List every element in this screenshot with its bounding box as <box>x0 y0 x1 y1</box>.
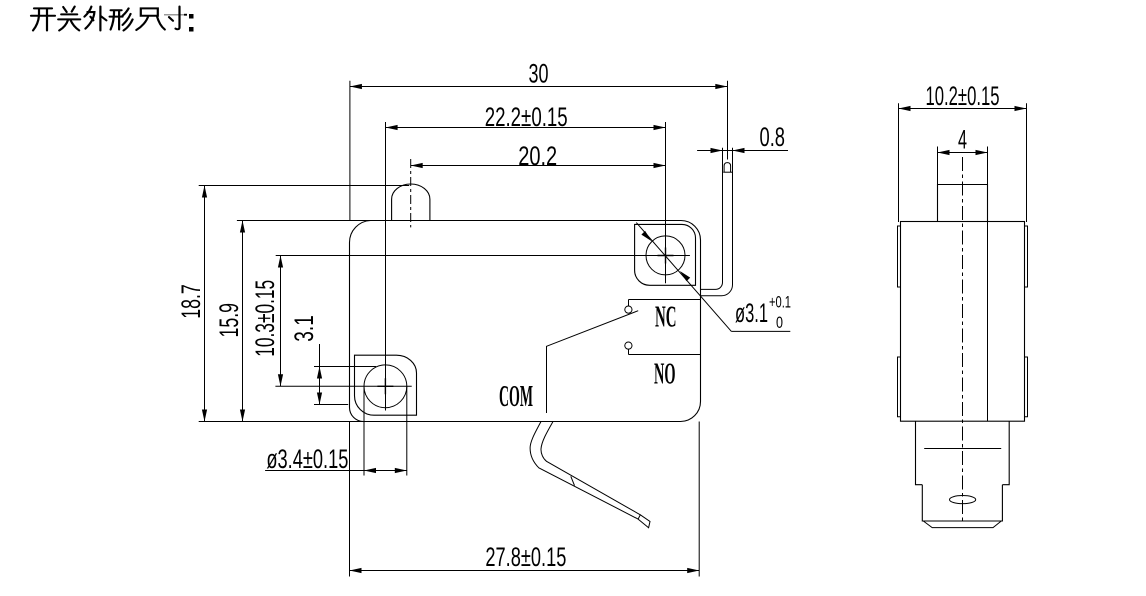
dimension 22.2 text <box>485 102 568 132</box>
bottom-left hole vertical centerline / 22.2 left extension <box>385 122 387 411</box>
end view terminal block lower <box>922 485 1002 528</box>
title 开关外形尺寸: <box>31 7 194 32</box>
svg-text:10.3±0.15: 10.3±0.15 <box>250 280 280 357</box>
svg-text:ø3.4±0.15: ø3.4±0.15 <box>266 444 348 474</box>
dimension 3.1 line <box>314 344 376 405</box>
dimension 10.3 line <box>278 256 283 387</box>
end view right ribs <box>1025 226 1028 417</box>
dimension 0.8 line <box>697 148 788 153</box>
svg-text:18.7: 18.7 <box>176 284 206 319</box>
COM label <box>499 378 533 413</box>
dimension 4 text <box>958 125 967 155</box>
NC terminal blade <box>700 148 732 296</box>
switch body outline <box>350 221 701 422</box>
dimension 20.2 text <box>518 141 557 171</box>
dimension 0.8 text <box>760 122 786 152</box>
svg-text:+0.1: +0.1 <box>769 293 791 312</box>
svg-text:15.9: 15.9 <box>214 303 244 338</box>
dia 3.1 leader line <box>636 223 790 332</box>
dia 3.1 +0.1/0 label <box>735 293 791 333</box>
dimension dia3.4 line <box>265 386 407 475</box>
svg-text:22.2±0.15: 22.2±0.15 <box>485 102 568 132</box>
bottom-left mounting pad <box>355 355 417 415</box>
bottom-left mounting hole <box>364 365 407 408</box>
top-right mounting pad <box>635 224 696 285</box>
svg-text:27.8±0.15: 27.8±0.15 <box>485 542 566 572</box>
svg-text:COM: COM <box>499 378 533 413</box>
svg-text:0: 0 <box>776 313 783 332</box>
svg-text:20.2: 20.2 <box>518 141 557 171</box>
svg-text:NC: NC <box>655 299 677 334</box>
svg-text:3.1: 3.1 <box>289 315 319 342</box>
dimension 15.9 line <box>237 221 371 422</box>
NC contact <box>625 300 701 314</box>
svg-text:ø3.1: ø3.1 <box>735 298 768 328</box>
dimension dia3.4 text <box>266 444 348 474</box>
end view internal edge line <box>987 222 989 422</box>
end view body <box>901 222 1025 422</box>
svg-text:30: 30 <box>529 59 549 89</box>
common lever <box>547 311 639 413</box>
COM terminal pin (bent) <box>530 422 650 528</box>
end view left ribs <box>898 226 901 417</box>
top-right mounting hole <box>646 236 685 275</box>
NC label <box>655 299 677 334</box>
dimension 18.7 line <box>199 186 410 422</box>
svg-text:4: 4 <box>958 125 967 155</box>
NO label <box>654 356 676 391</box>
dimension 18.7 text <box>176 284 206 319</box>
svg-text:0.8: 0.8 <box>760 122 786 152</box>
dimension 3.1 text <box>289 315 319 342</box>
dimension 10.2 text <box>926 81 1000 111</box>
dimension 30 text <box>529 59 549 89</box>
bottom-left hole horizontal centerline / 10.3 bottom reference <box>275 385 411 387</box>
dimension 4 line <box>938 147 988 185</box>
dimension 10.3 text <box>250 280 280 357</box>
svg-text:NO: NO <box>654 356 676 391</box>
end view terminal block upper <box>916 421 1010 485</box>
plunger button (main view) <box>392 184 430 221</box>
dimension 15.9 text <box>214 303 244 338</box>
plunger centerline (20.2 extension) <box>410 159 412 227</box>
svg-text:10.2±0.15: 10.2±0.15 <box>926 81 1000 111</box>
dimension 10.2 line <box>899 103 1027 222</box>
dimension 22.2 line <box>386 125 666 130</box>
end view oval hole <box>950 496 976 504</box>
NO contact <box>625 342 701 355</box>
dimension 27.8 text <box>485 542 566 572</box>
top-right hole vertical centerline / 22.2 right extension <box>665 122 667 283</box>
end view plunger <box>938 185 988 222</box>
dimension 27.8 line <box>199 422 700 577</box>
dimension 20.2 line <box>411 163 666 168</box>
end view centerline <box>962 157 964 521</box>
hole-center horizontal line / 10.3 top reference <box>276 255 690 257</box>
dimension 30 line <box>350 81 728 221</box>
hole centermarks <box>377 248 673 395</box>
